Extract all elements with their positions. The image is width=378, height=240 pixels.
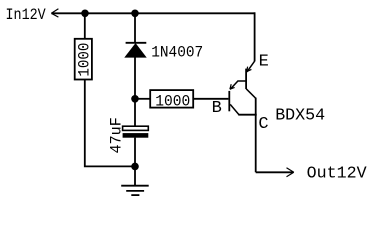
junction dot B (top rail / D1) — [131, 10, 139, 18]
svg-text:47uF: 47uF — [108, 117, 126, 153]
wire D1 anode down to capacitor — [134, 57, 136, 126]
node In12V label — [6, 6, 47, 24]
wire collector to Out12V — [256, 171, 293, 173]
wire D1 top stub — [134, 13, 136, 42]
wire capacitor bottom to ground node — [134, 138, 136, 167]
svg-text:B: B — [212, 99, 222, 118]
junction dot C (base branch) — [131, 95, 139, 103]
ground symbol — [121, 186, 149, 195]
transistor Q1 driver collector — [230, 104, 239, 114]
wire emitter from top rail — [254, 12, 256, 61]
svg-text:BDX54: BDX54 — [275, 107, 325, 126]
transistor Q1 output emitter arrow — [247, 67, 252, 72]
transistor Q1 driver emitter (to Q2 base) — [230, 81, 246, 89]
junction dot A (top rail / R1) — [81, 10, 89, 18]
diode D1 cathode bar — [126, 42, 147, 44]
svg-text:1000: 1000 — [155, 92, 190, 110]
wire base node to R2 — [135, 98, 150, 100]
wire top rail In12V to emitter corner — [51, 12, 254, 14]
resistor R1 body — [75, 39, 92, 80]
Out12V arrow — [287, 168, 294, 177]
svg-text:C: C — [258, 115, 268, 134]
svg-text:1000: 1000 — [76, 43, 94, 77]
svg-text:Out12V: Out12V — [307, 164, 368, 183]
resistor R2 body — [150, 90, 193, 108]
transistor Q1 output collector — [246, 89, 256, 99]
transistor Q1 output base bar — [245, 69, 247, 89]
wire ground stem — [134, 166, 136, 185]
In12V arrow — [51, 9, 58, 17]
svg-text:1N4007: 1N4007 — [151, 44, 203, 62]
wire R2 to transistor base — [193, 98, 228, 100]
transistor Q1 driver emitter arrow — [230, 84, 235, 89]
wire R1 top stub — [84, 13, 86, 39]
svg-text:In12V: In12V — [6, 6, 47, 24]
svg-text:E: E — [259, 53, 269, 72]
junction dot D (ground node) — [131, 163, 139, 171]
capacitor C1 bottom plate (filled) — [123, 133, 149, 138]
diode D1 triangle — [125, 44, 146, 58]
transistor Q1 BDX54 driver base bar — [228, 91, 230, 111]
wire R1 bottom to ground node — [85, 80, 135, 167]
capacitor C1 top plate (hollow) — [123, 126, 149, 130]
